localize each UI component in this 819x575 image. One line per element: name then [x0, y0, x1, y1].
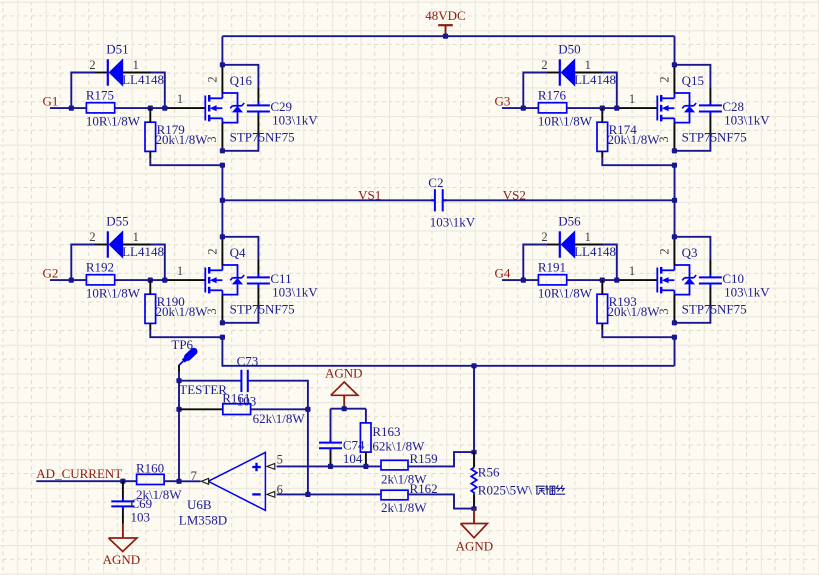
value 103\1kV of C28 [724, 113, 770, 128]
diode D50 [560, 58, 575, 87]
designator U6B [187, 497, 212, 512]
svg-text:104: 104 [343, 451, 363, 466]
resistor R175 [86, 103, 114, 113]
resistor R159 [381, 460, 408, 470]
wire C28 to source node [674, 115, 710, 151]
wire gate pin of Q3 [617, 279, 658, 281]
svg-text:1: 1 [177, 264, 183, 278]
designator R192 [86, 259, 114, 274]
svg-text:R56: R56 [478, 465, 500, 480]
svg-text:C2: C2 [428, 175, 443, 190]
svg-text:AGND: AGND [103, 552, 141, 567]
wire C29 to source node [222, 115, 258, 151]
wire R176 to gate node [567, 107, 617, 109]
designator R176 [538, 87, 567, 102]
junction R190 top [148, 278, 153, 283]
wire G2 node up to D55 cathode [71, 245, 107, 281]
junction C69 tap [120, 479, 125, 484]
svg-text:Q16: Q16 [230, 73, 253, 88]
pin 3 source of Q3 [673, 295, 675, 323]
svg-text:VS1: VS1 [358, 188, 381, 203]
wire D51 anode down to gate node [123, 73, 165, 109]
junction bottom rail to R56 [471, 363, 476, 368]
value 62k\1/8W of R163 [372, 438, 425, 453]
designator R56 [478, 465, 500, 480]
svg-text:G2: G2 [43, 266, 59, 281]
junction drain node of Q15 [672, 62, 677, 67]
value 103\1kV of C11 [272, 285, 318, 300]
wire Q4 leg to bottom rail [222, 337, 674, 366]
wire R193 top pin [601, 280, 603, 294]
svg-text:STP75NF75: STP75NF75 [682, 130, 747, 145]
power port AGND mid [325, 366, 363, 409]
designator R193 [609, 294, 637, 309]
value STP75NF75 of Q3 [682, 302, 747, 317]
net label TESTER [179, 382, 227, 397]
designator D51 [106, 42, 128, 57]
designator TP6 [171, 337, 193, 352]
wire R179 top pin [149, 108, 151, 122]
junction R174 bottom [672, 163, 677, 168]
value 10R\1/8W of R176 [538, 114, 593, 129]
value STP75NF75 of Q16 [230, 130, 295, 145]
wire Q15 source to Q3 drain [674, 165, 676, 237]
designator R175 [86, 87, 114, 102]
svg-text:U6B: U6B [187, 497, 212, 512]
svg-text:103\1kV: 103\1kV [430, 215, 476, 230]
svg-text:2: 2 [658, 248, 672, 254]
pin number 3 of Q15 [657, 136, 671, 142]
wire R56 bottom lead [473, 494, 475, 508]
pin number 3 of Q16 [205, 136, 219, 142]
junction R56 top [471, 450, 476, 454]
svg-text:48VDC: 48VDC [425, 8, 465, 23]
designator Q15 [682, 73, 704, 88]
svg-text:D56: D56 [558, 214, 581, 229]
designator C29 [270, 99, 292, 114]
svg-text:R025\5W\: R025\5W\ [478, 483, 533, 498]
junction R190 bottom [220, 335, 225, 340]
svg-text:STP75NF75: STP75NF75 [230, 130, 295, 145]
value 103\1kV of C29 [272, 113, 318, 128]
svg-text:2: 2 [89, 58, 95, 72]
junction VS1 at Q16 leg [220, 198, 225, 203]
value 20k\1/8W of R179 [156, 132, 209, 147]
junction D51 anode [162, 106, 167, 111]
pin number 1 of Q3 [629, 264, 635, 278]
wire R179 bottom to source node [150, 151, 222, 165]
pin number 3 of Q3 [657, 308, 671, 314]
svg-text:103\1kV: 103\1kV [272, 113, 318, 128]
wire pin6 of U6B [277, 493, 381, 495]
pin 3 source of Q4 [221, 295, 223, 323]
svg-text:LL4148: LL4148 [574, 244, 616, 259]
svg-text:AGND: AGND [456, 538, 494, 553]
designator C69 [131, 496, 153, 511]
value LL4148 of D50 [574, 72, 616, 87]
capacitor C74 [319, 439, 342, 451]
diode D56 [560, 230, 575, 259]
junction D50 anode [614, 106, 619, 111]
op-amp U6B [208, 452, 265, 510]
designator C10 [722, 271, 744, 286]
svg-text:G4: G4 [495, 266, 511, 281]
junction R56 bottom [471, 506, 476, 510]
pin 1 of D56 [585, 230, 591, 244]
svg-text:2: 2 [541, 230, 547, 244]
svg-text:C11: C11 [270, 271, 291, 286]
value 20k\1/8W of R193 [608, 304, 661, 319]
value 103\1kV of C2 [430, 215, 476, 230]
svg-text:20k\1/8W: 20k\1/8W [156, 304, 209, 319]
svg-text:1: 1 [133, 230, 139, 244]
value 104 of C74 [343, 451, 363, 466]
wire gate pin of Q4 [165, 279, 206, 281]
wire R193 bottom to source node [602, 323, 674, 337]
power port AGND left [103, 524, 141, 567]
designator R161 [222, 391, 250, 406]
designator R162 [410, 481, 438, 496]
junction R179 bottom [220, 163, 225, 168]
junction drain node of Q4 [220, 234, 225, 239]
svg-text:R176: R176 [538, 87, 567, 102]
designator Q4 [230, 245, 246, 260]
pin number 1 of Q4 [177, 264, 183, 278]
junction R193 bottom [672, 335, 677, 340]
value 103\1kV of C10 [724, 285, 770, 300]
svg-text:TESTER: TESTER [179, 382, 227, 397]
node G1 junction [69, 106, 74, 111]
pin 1 of D55 [133, 230, 139, 244]
designator D50 [558, 42, 580, 57]
svg-text:3: 3 [657, 308, 671, 314]
designator Q3 [682, 245, 698, 260]
wire R161 right segment [251, 408, 308, 410]
designator R190 [157, 294, 185, 309]
pin number 7 of U6B [191, 469, 197, 483]
svg-text:3: 3 [205, 308, 219, 314]
designator Q16 [230, 73, 253, 88]
test point TP6 [179, 351, 194, 365]
pin number 1 of Q15 [629, 92, 635, 106]
svg-text:3: 3 [205, 136, 219, 142]
svg-text:2: 2 [541, 58, 547, 72]
junction R179 top [148, 106, 153, 111]
transistor Q3 [657, 265, 696, 295]
junction drain node of Q16 [220, 62, 225, 67]
svg-text:C10: C10 [722, 271, 744, 286]
capacitor C28 [699, 102, 722, 116]
wire pin6 node vertical [307, 409, 309, 494]
svg-text:2: 2 [89, 230, 95, 244]
resistor R179 [145, 122, 156, 151]
wire VS2 rail [443, 199, 675, 201]
pin 2 of D55 [89, 230, 95, 244]
wire R163 bottom pin [365, 452, 367, 466]
value R025\5W\kangtongsi of R56 [478, 483, 565, 498]
resistor R161 [223, 404, 251, 415]
wire bottom rail to R56 [473, 366, 475, 450]
svg-text:AD_CURRENT: AD_CURRENT [36, 466, 122, 481]
wire gate pin of Q15 [617, 107, 658, 109]
wire G1 node up to D51 cathode [71, 73, 107, 109]
svg-text:103\1kV: 103\1kV [272, 285, 318, 300]
wire 48VDC top bus [222, 35, 674, 37]
value 103 of C73 [237, 393, 256, 408]
pin 2 of D50 [541, 58, 547, 72]
value LM358D of U6B [179, 512, 227, 527]
svg-text:R159: R159 [410, 451, 438, 466]
wire AGND node [331, 408, 366, 410]
wire D50 anode down to gate node [575, 73, 617, 109]
svg-text:2k\1/8W: 2k\1/8W [381, 500, 427, 515]
wire R163 top pin [365, 409, 367, 423]
svg-text:R175: R175 [86, 87, 114, 102]
junction C74 on pin5 wire [328, 464, 333, 469]
wire R161 left segment [179, 408, 223, 410]
resistor R160 [137, 474, 165, 484]
svg-text:R163: R163 [372, 424, 400, 439]
wire TP6 pin [178, 365, 180, 373]
pin number 2 of Q16 [206, 76, 220, 82]
svg-text:STP75NF75: STP75NF75 [682, 302, 747, 317]
svg-text:VS2: VS2 [503, 188, 526, 203]
junction R174 top [600, 106, 605, 111]
wire TESTER to C73 [179, 380, 241, 382]
svg-text:103\1kV: 103\1kV [724, 285, 770, 300]
designator R159 [410, 451, 438, 466]
node G3 junction [521, 106, 526, 111]
value 10R\1/8W of R192 [86, 286, 141, 301]
pin number 2 of Q15 [658, 76, 672, 82]
wire D56 anode down to gate node [575, 245, 617, 281]
wire G4 node up to D56 cathode [523, 245, 559, 281]
junction R161 right [305, 407, 310, 412]
svg-text:2: 2 [206, 76, 220, 82]
pin number 5 of U6B [277, 452, 283, 466]
pin number 1 of Q16 [177, 92, 183, 106]
designator C11 [270, 271, 291, 286]
designator D55 [106, 214, 128, 229]
net label G2 [43, 266, 59, 281]
junction op-amp output node [176, 479, 181, 484]
svg-text:2: 2 [658, 76, 672, 82]
junction TESTER wire [176, 378, 181, 383]
svg-text:10R\1/8W: 10R\1/8W [538, 286, 593, 301]
transistor Q15 [657, 93, 696, 123]
wire TP6 to output node [178, 371, 180, 481]
wire pin5 of U6B [277, 465, 381, 467]
power port 48VDC [425, 8, 465, 36]
wire R190 bottom to source node [150, 323, 222, 337]
pin 3 source of Q16 [221, 123, 223, 151]
svg-text:3: 3 [657, 136, 671, 142]
wire G1 to gate resistor R175 [50, 107, 86, 109]
wire C73 to pin6 node [248, 381, 308, 410]
pin 2 drain of Q16 [221, 65, 223, 93]
wire C74 top pin [330, 409, 332, 440]
net label G4 [495, 266, 511, 281]
value 10R\1/8W of R191 [538, 286, 593, 301]
junction R163 on pin5 wire [363, 464, 368, 469]
pin number 3 of Q4 [205, 308, 219, 314]
pin number 2 of Q3 [658, 248, 672, 254]
pin 2 drain of Q3 [673, 237, 675, 265]
svg-text:AGND: AGND [325, 366, 363, 381]
wire C69 top pin [122, 481, 124, 498]
pin 1 of D50 [585, 58, 591, 72]
pin 2 of D56 [541, 230, 547, 244]
capacitor C2 [431, 189, 446, 211]
value 20k\1/8W of R190 [156, 304, 209, 319]
junction C28 bottom [672, 148, 677, 153]
wire G4 to gate resistor R191 [502, 279, 538, 281]
junction AGND stem [342, 406, 347, 411]
designator R179 [157, 122, 185, 137]
node G2 junction [69, 278, 74, 283]
svg-text:20k\1/8W: 20k\1/8W [156, 132, 209, 147]
net label G3 [495, 94, 511, 109]
svg-text:1: 1 [133, 58, 139, 72]
wire R174 bottom to source node [602, 151, 674, 165]
designator C73 [237, 353, 259, 368]
transistor Q16 [205, 93, 244, 123]
designator C28 [722, 99, 744, 114]
capacitor C73 [241, 370, 247, 392]
pin 2 drain of Q4 [221, 237, 223, 265]
net label VS2 [503, 188, 526, 203]
wire Q16 source to Q4 drain [221, 165, 223, 237]
junction D55 anode [162, 278, 167, 283]
svg-text:1: 1 [585, 58, 591, 72]
wire R190 top pin [149, 280, 151, 294]
wire drain node to C29 [222, 65, 258, 102]
wire G2 to gate resistor R192 [50, 279, 86, 281]
value STP75NF75 of Q15 [682, 130, 747, 145]
wire VS1 rail [222, 199, 435, 201]
net label AD_CURRENT [36, 466, 122, 481]
svg-text:G1: G1 [43, 94, 59, 109]
svg-text:D51: D51 [106, 42, 128, 57]
value 20k\1/8W of R174 [608, 132, 661, 147]
svg-text:R161: R161 [222, 391, 250, 406]
svg-text:2: 2 [206, 248, 220, 254]
wire D55 anode down to gate node [123, 245, 165, 281]
svg-text:D50: D50 [558, 42, 580, 57]
svg-text:20k\1/8W: 20k\1/8W [608, 132, 661, 147]
svg-text:TP6: TP6 [171, 337, 193, 352]
svg-text:LL4148: LL4148 [122, 244, 164, 259]
junction pin6 node [305, 492, 310, 497]
pin number 6 of U6B [277, 483, 283, 497]
pin 1 of D51 [133, 58, 139, 72]
wire R160 to output node [164, 480, 179, 482]
wire gate pin of Q16 [165, 107, 206, 109]
resistor R192 [86, 275, 114, 285]
designator C2 [428, 175, 443, 190]
svg-text:R160: R160 [136, 461, 164, 476]
junction drain node of Q3 [672, 234, 677, 239]
resistor R163 [360, 423, 371, 452]
junction 48VDC [443, 34, 448, 39]
power port AGND right [456, 509, 494, 554]
node G4 junction [521, 278, 526, 283]
pin 2 of D51 [89, 58, 95, 72]
resistor R174 [597, 122, 608, 151]
junction R161 left [176, 407, 181, 412]
svg-text:D55: D55 [106, 214, 128, 229]
svg-text:C73: C73 [237, 353, 259, 368]
resistor R176 [538, 103, 566, 113]
designator R191 [538, 259, 566, 274]
designator R163 [372, 424, 400, 439]
svg-text:LL4148: LL4148 [574, 72, 616, 87]
diode D51 [108, 58, 123, 87]
svg-text:10R\1/8W: 10R\1/8W [86, 114, 141, 129]
designator D56 [558, 214, 581, 229]
svg-text:1: 1 [629, 92, 635, 106]
designator R174 [609, 122, 638, 137]
junction R193 top [600, 278, 605, 283]
wire C11 to source node [222, 287, 258, 323]
junction C11 bottom [220, 320, 225, 325]
svg-text:10R\1/8W: 10R\1/8W [86, 286, 141, 301]
pin 5 arrow of U6B [267, 464, 275, 470]
junction D56 anode [614, 278, 619, 283]
svg-text:Q4: Q4 [230, 245, 246, 260]
value LL4148 of D51 [122, 72, 164, 87]
wire R175 to gate node [115, 107, 165, 109]
wire top bus to Q15 drain [674, 36, 676, 65]
svg-text:1: 1 [629, 264, 635, 278]
svg-text:STP75NF75: STP75NF75 [230, 302, 295, 317]
resistor R162 [381, 490, 408, 500]
svg-text:G3: G3 [495, 94, 511, 109]
resistor R191 [538, 275, 566, 285]
wire R56 top lead [473, 452, 475, 467]
wire C74 bottom pin [330, 451, 332, 466]
wire drain node to C28 [674, 65, 710, 102]
svg-text:103\1kV: 103\1kV [724, 113, 770, 128]
junction C10 bottom [672, 320, 677, 325]
pin 2 drain of Q15 [673, 65, 675, 93]
transistor Q4 [205, 265, 244, 295]
value 2k\1/8W of R162 [381, 500, 427, 515]
capacitor C10 [699, 274, 722, 288]
net label VS1 [358, 188, 381, 203]
svg-text:103: 103 [131, 510, 151, 525]
value 2k\1/8W of R160 [136, 487, 182, 502]
pin 6 arrow of U6B [267, 492, 275, 498]
wire drain node to C10 [674, 237, 710, 274]
svg-text:LL4148: LL4148 [122, 72, 164, 87]
capacitor C69 [111, 498, 134, 509]
wire top bus to Q16 drain [221, 36, 223, 65]
wire Q3 leg to bottom rail [674, 337, 676, 366]
value 62k\1/8W of R161 [253, 411, 306, 426]
wire R191 to gate node [567, 279, 617, 281]
wire R162 to R56 bottom [408, 494, 474, 508]
wire drain node to C11 [222, 237, 258, 274]
svg-text:Q3: Q3 [682, 245, 698, 260]
junction C29 bottom [220, 148, 225, 153]
value 2k\1/8W of R159 [381, 472, 427, 487]
wire R192 to gate node [115, 279, 165, 281]
svg-text:5: 5 [277, 452, 283, 466]
designator C74 [343, 437, 365, 452]
wire C69 bottom pin [122, 509, 124, 524]
resistor R56 [471, 467, 477, 494]
